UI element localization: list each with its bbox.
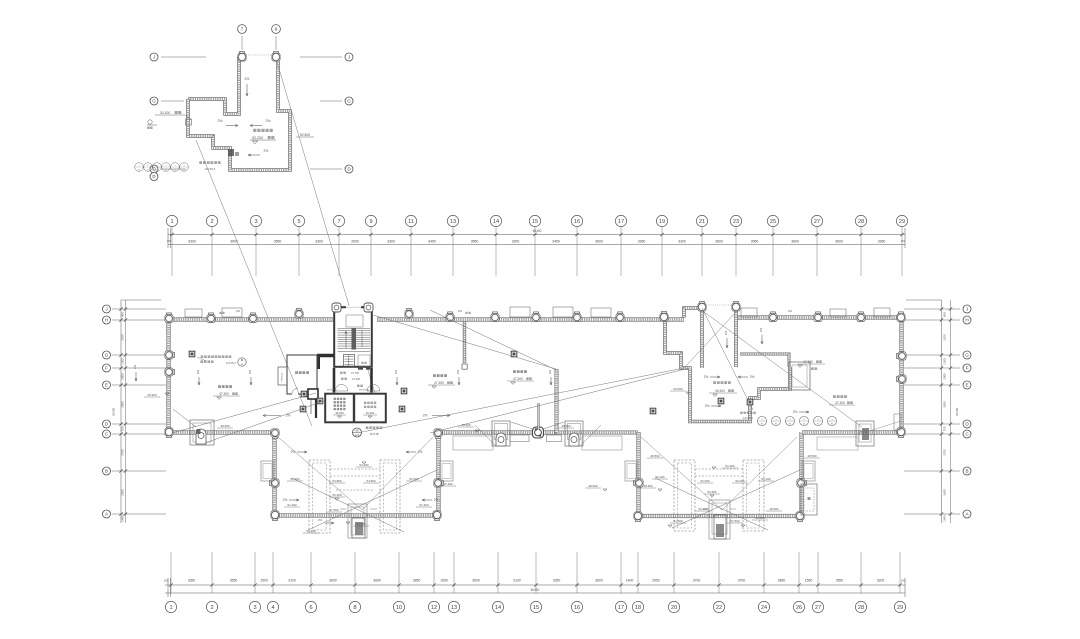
svg-text:B: B bbox=[105, 469, 108, 474]
svg-text:15: 15 bbox=[533, 605, 539, 611]
svg-text:3350: 3350 bbox=[553, 579, 561, 583]
svg-text:28: 28 bbox=[858, 219, 864, 225]
svg-text:J: J bbox=[153, 55, 155, 60]
svg-text:2850: 2850 bbox=[413, 579, 421, 583]
svg-text:54.800: 54.800 bbox=[332, 479, 342, 483]
svg-text:51.300: 51.300 bbox=[419, 503, 429, 507]
svg-text:2%: 2% bbox=[286, 414, 291, 418]
svg-text:49.250: 49.250 bbox=[335, 411, 344, 415]
svg-text:200: 200 bbox=[164, 579, 169, 583]
svg-text:2%: 2% bbox=[750, 375, 755, 379]
svg-text:47.300: 47.300 bbox=[513, 377, 523, 381]
svg-text:53.500: 53.500 bbox=[707, 490, 717, 494]
svg-text:3100: 3100 bbox=[513, 579, 521, 583]
svg-text:3600: 3600 bbox=[595, 579, 603, 583]
svg-text:B: B bbox=[965, 469, 968, 474]
svg-text:12: 12 bbox=[431, 605, 437, 611]
svg-text:23: 23 bbox=[733, 219, 739, 225]
svg-text:121YJB: 121YJB bbox=[369, 432, 378, 436]
svg-text:2%: 2% bbox=[248, 370, 252, 375]
svg-text:60400: 60400 bbox=[533, 229, 542, 233]
svg-text:3600: 3600 bbox=[121, 489, 125, 496]
svg-text:51.300: 51.300 bbox=[287, 503, 297, 507]
svg-text:51.300: 51.300 bbox=[725, 464, 735, 468]
svg-text:10: 10 bbox=[396, 605, 402, 611]
svg-text:50.100: 50.100 bbox=[655, 475, 665, 479]
svg-text:14: 14 bbox=[493, 219, 499, 225]
svg-text:3550: 3550 bbox=[274, 239, 282, 243]
svg-text:D: D bbox=[152, 174, 155, 179]
svg-text:FW1015L: FW1015L bbox=[282, 372, 284, 382]
svg-text:1400: 1400 bbox=[943, 515, 947, 522]
svg-text:G: G bbox=[152, 99, 156, 104]
svg-text:5: 5 bbox=[297, 219, 300, 225]
svg-text:56.300: 56.300 bbox=[332, 493, 342, 497]
svg-text:13: 13 bbox=[451, 605, 457, 611]
svg-text:2%: 2% bbox=[458, 309, 463, 313]
svg-text:2%: 2% bbox=[434, 498, 439, 502]
svg-text:J: J bbox=[348, 55, 350, 60]
svg-text:3600: 3600 bbox=[943, 489, 947, 496]
svg-text:54.800: 54.800 bbox=[366, 479, 376, 483]
svg-text:1300: 1300 bbox=[943, 358, 947, 365]
svg-text:12YJ5-1: 12YJ5-1 bbox=[226, 361, 236, 365]
svg-text:G: G bbox=[965, 353, 969, 358]
svg-text:2%: 2% bbox=[196, 370, 200, 375]
svg-text:750: 750 bbox=[943, 426, 947, 431]
svg-text:48.900: 48.900 bbox=[461, 423, 471, 427]
svg-text:2%: 2% bbox=[318, 518, 323, 522]
svg-text:48.500: 48.500 bbox=[807, 454, 817, 458]
svg-text:800: 800 bbox=[121, 312, 125, 317]
svg-text:15: 15 bbox=[532, 219, 538, 225]
svg-text:2%: 2% bbox=[548, 370, 552, 375]
svg-text:50.000: 50.000 bbox=[673, 387, 683, 391]
svg-text:18: 18 bbox=[635, 605, 641, 611]
svg-text:47.300: 47.300 bbox=[803, 360, 813, 364]
svg-text:2%: 2% bbox=[724, 331, 728, 336]
svg-text:3300: 3300 bbox=[678, 239, 686, 243]
svg-text:48.900: 48.900 bbox=[220, 424, 230, 428]
svg-text:H: H bbox=[965, 318, 968, 323]
svg-text:3550: 3550 bbox=[836, 579, 844, 583]
svg-text:1500: 1500 bbox=[260, 579, 268, 583]
svg-text:57.600: 57.600 bbox=[329, 508, 339, 512]
svg-text:3300: 3300 bbox=[387, 239, 395, 243]
svg-text:54.300: 54.300 bbox=[359, 463, 369, 467]
svg-text:52.500: 52.500 bbox=[300, 133, 310, 137]
svg-text:27: 27 bbox=[814, 219, 820, 225]
svg-text:3350: 3350 bbox=[638, 239, 646, 243]
svg-text:26: 26 bbox=[796, 605, 802, 611]
svg-text:3450: 3450 bbox=[428, 239, 436, 243]
svg-text:7: 7 bbox=[241, 27, 244, 33]
svg-text:E: E bbox=[105, 383, 108, 388]
svg-text:3600: 3600 bbox=[373, 579, 381, 583]
svg-text:3200: 3200 bbox=[512, 239, 520, 243]
svg-text:12YJ5-1: 12YJ5-1 bbox=[743, 416, 753, 420]
svg-text:8: 8 bbox=[353, 605, 356, 611]
svg-text:1800: 1800 bbox=[943, 373, 947, 380]
svg-text:200: 200 bbox=[901, 239, 906, 243]
svg-text:2950: 2950 bbox=[652, 579, 660, 583]
svg-text:F: F bbox=[105, 366, 108, 371]
svg-text:52.600: 52.600 bbox=[290, 477, 300, 481]
svg-text:48.500: 48.500 bbox=[643, 484, 653, 488]
svg-text:3: 3 bbox=[254, 219, 257, 225]
svg-text:51.300: 51.300 bbox=[443, 482, 453, 486]
svg-text:2%: 2% bbox=[283, 498, 288, 502]
svg-text:54.300: 54.300 bbox=[306, 529, 316, 533]
svg-text:200: 200 bbox=[167, 239, 172, 243]
svg-text:1400: 1400 bbox=[626, 579, 634, 583]
svg-text:54.200: 54.200 bbox=[698, 507, 708, 511]
svg-text:2%: 2% bbox=[245, 77, 250, 81]
svg-text:48.900: 48.900 bbox=[561, 424, 571, 428]
svg-text:FW1251C: FW1251C bbox=[327, 390, 337, 392]
svg-text:80: 80 bbox=[138, 169, 140, 171]
svg-text:51.500: 51.500 bbox=[673, 519, 683, 523]
svg-text:3100: 3100 bbox=[288, 579, 296, 583]
svg-text:60400: 60400 bbox=[531, 588, 540, 592]
svg-text:2%: 2% bbox=[236, 309, 241, 313]
svg-text:2%: 2% bbox=[759, 328, 763, 333]
svg-text:80: 80 bbox=[147, 169, 149, 171]
svg-text:3600: 3600 bbox=[595, 239, 603, 243]
svg-text:2%: 2% bbox=[133, 365, 137, 370]
svg-text:G: G bbox=[347, 99, 351, 104]
svg-text:3600: 3600 bbox=[472, 579, 480, 583]
svg-text:80: 80 bbox=[174, 169, 176, 171]
svg-text:E: E bbox=[965, 383, 968, 388]
svg-text:F: F bbox=[966, 366, 969, 371]
svg-text:19: 19 bbox=[659, 219, 665, 225]
svg-text:3200: 3200 bbox=[877, 579, 885, 583]
svg-text:2%: 2% bbox=[291, 450, 296, 454]
svg-text:G: G bbox=[105, 353, 109, 358]
svg-text:16: 16 bbox=[574, 219, 580, 225]
svg-text:48.500: 48.500 bbox=[588, 484, 598, 488]
svg-text:36300: 36300 bbox=[955, 407, 959, 416]
svg-text:3700: 3700 bbox=[121, 449, 125, 456]
svg-text:36300: 36300 bbox=[112, 407, 116, 416]
svg-text:50.100: 50.100 bbox=[761, 477, 771, 481]
svg-text:24: 24 bbox=[761, 605, 767, 611]
svg-text:1800: 1800 bbox=[121, 373, 125, 380]
svg-text:J: J bbox=[966, 307, 968, 312]
svg-text:2%: 2% bbox=[793, 410, 798, 414]
svg-text:9: 9 bbox=[275, 27, 278, 33]
svg-text:2%: 2% bbox=[394, 370, 398, 375]
svg-text:11: 11 bbox=[408, 219, 414, 225]
svg-text:30.100: 30.100 bbox=[160, 111, 170, 115]
svg-text:3700: 3700 bbox=[943, 449, 947, 456]
svg-text:52.000: 52.000 bbox=[735, 479, 745, 483]
svg-text:3050: 3050 bbox=[751, 239, 759, 243]
svg-text:47.200: 47.200 bbox=[352, 377, 360, 381]
svg-text:3550: 3550 bbox=[471, 239, 479, 243]
svg-text:6: 6 bbox=[309, 605, 312, 611]
svg-text:52.500: 52.500 bbox=[755, 516, 765, 520]
svg-text:48.900: 48.900 bbox=[147, 393, 157, 397]
svg-text:1550: 1550 bbox=[805, 579, 813, 583]
svg-text:17: 17 bbox=[618, 605, 624, 611]
svg-text:14: 14 bbox=[495, 605, 501, 611]
svg-text:1400: 1400 bbox=[121, 515, 125, 522]
svg-text:48.500: 48.500 bbox=[650, 454, 660, 458]
svg-text:27: 27 bbox=[815, 605, 821, 611]
svg-text:17: 17 bbox=[618, 219, 624, 225]
svg-text:21: 21 bbox=[699, 219, 705, 225]
svg-text:2800: 2800 bbox=[715, 239, 723, 243]
svg-text:47.300: 47.300 bbox=[434, 381, 444, 385]
svg-text:48.500: 48.500 bbox=[769, 507, 779, 511]
svg-text:750: 750 bbox=[121, 426, 125, 431]
svg-text:3550: 3550 bbox=[230, 579, 238, 583]
svg-text:2%: 2% bbox=[423, 414, 428, 418]
svg-text:1650: 1650 bbox=[440, 579, 448, 583]
svg-text:2%: 2% bbox=[218, 119, 223, 123]
svg-text:3300: 3300 bbox=[315, 239, 323, 243]
svg-text:3300: 3300 bbox=[188, 239, 196, 243]
svg-text:29: 29 bbox=[899, 219, 905, 225]
svg-text:47.300: 47.300 bbox=[835, 401, 845, 405]
svg-text:22: 22 bbox=[716, 605, 722, 611]
svg-text:51.500: 51.500 bbox=[730, 519, 740, 523]
svg-text:2%: 2% bbox=[456, 370, 460, 375]
svg-text:47.300: 47.300 bbox=[219, 392, 229, 396]
svg-text:3100: 3100 bbox=[121, 334, 125, 341]
svg-text:3600: 3600 bbox=[791, 239, 799, 243]
svg-text:80: 80 bbox=[156, 169, 158, 171]
svg-text:2: 2 bbox=[210, 219, 213, 225]
svg-text:2%: 2% bbox=[788, 309, 793, 313]
svg-text:1: 1 bbox=[169, 605, 172, 611]
svg-text:2%: 2% bbox=[705, 404, 710, 408]
svg-text:52.200: 52.200 bbox=[252, 136, 263, 140]
svg-text:12YJ5-1: 12YJ5-1 bbox=[204, 167, 216, 171]
svg-text:3700: 3700 bbox=[738, 579, 746, 583]
svg-text:2: 2 bbox=[210, 605, 213, 611]
svg-text:7: 7 bbox=[337, 219, 340, 225]
svg-text:3700: 3700 bbox=[693, 579, 701, 583]
svg-text:2600: 2600 bbox=[351, 239, 359, 243]
svg-text:4: 4 bbox=[271, 605, 274, 611]
svg-text:49.250: 49.250 bbox=[366, 411, 375, 415]
svg-text:3950: 3950 bbox=[121, 401, 125, 408]
svg-text:49.400: 49.400 bbox=[715, 389, 725, 393]
svg-text:200: 200 bbox=[901, 579, 906, 583]
svg-text:25: 25 bbox=[770, 219, 776, 225]
svg-text:80: 80 bbox=[165, 169, 167, 171]
svg-text:H: H bbox=[105, 318, 108, 323]
svg-text:9: 9 bbox=[369, 219, 372, 225]
svg-text:3950: 3950 bbox=[943, 401, 947, 408]
svg-text:2%: 2% bbox=[704, 375, 709, 379]
svg-text:20: 20 bbox=[671, 605, 677, 611]
svg-text:47.700: 47.700 bbox=[351, 371, 359, 375]
svg-text:800: 800 bbox=[943, 312, 947, 317]
svg-text:2%: 2% bbox=[266, 119, 271, 123]
svg-text:3: 3 bbox=[253, 605, 256, 611]
svg-text:54.300: 54.300 bbox=[356, 522, 366, 526]
svg-text:16: 16 bbox=[574, 605, 580, 611]
svg-text:FW1251C: FW1251C bbox=[359, 390, 369, 392]
svg-text:121: 121 bbox=[355, 434, 360, 437]
svg-text:3350: 3350 bbox=[878, 239, 886, 243]
svg-text:52.900: 52.900 bbox=[409, 477, 419, 481]
svg-text:3100: 3100 bbox=[943, 334, 947, 341]
svg-text:3350: 3350 bbox=[188, 579, 196, 583]
svg-text:29: 29 bbox=[897, 605, 903, 611]
svg-text:2%: 2% bbox=[418, 450, 423, 454]
svg-text:3600: 3600 bbox=[835, 239, 843, 243]
svg-text:2%: 2% bbox=[264, 149, 269, 153]
svg-text:1: 1 bbox=[170, 219, 173, 225]
svg-text:3600: 3600 bbox=[329, 579, 337, 583]
svg-text:2850: 2850 bbox=[778, 579, 786, 583]
svg-text:52.000: 52.000 bbox=[700, 479, 710, 483]
svg-text:28: 28 bbox=[858, 605, 864, 611]
svg-text:3450: 3450 bbox=[552, 239, 560, 243]
svg-text:13: 13 bbox=[450, 219, 456, 225]
svg-text:J: J bbox=[105, 307, 107, 312]
svg-text:1300: 1300 bbox=[121, 358, 125, 365]
svg-text:80: 80 bbox=[183, 169, 185, 171]
